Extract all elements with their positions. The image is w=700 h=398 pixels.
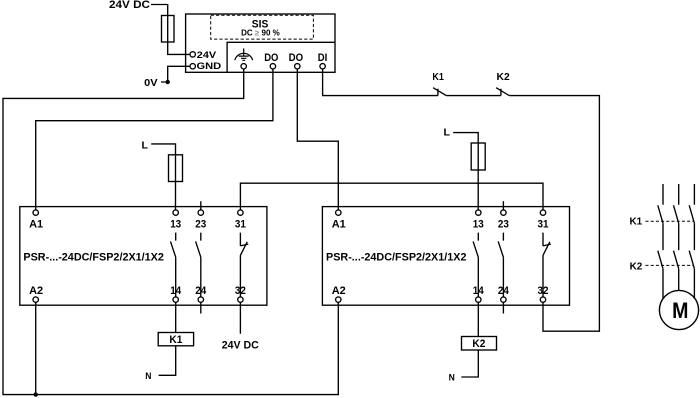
pin 14 (module 1) — [170, 285, 182, 302]
pin 31 (module 1) — [235, 210, 246, 231]
coil K2 — [462, 337, 497, 351]
wire DO (first) to module 1 A1 — [36, 69, 273, 210]
pin DO (first) — [264, 52, 279, 69]
svg-text:K2: K2 — [472, 338, 485, 350]
wire contact K2 to module 2 pin 32 — [509, 96, 599, 332]
value label PSR-...-24DC/FSP2/2X1/1X2 (module 1) — [23, 251, 164, 263]
pin 32 (module 2) — [538, 285, 549, 302]
stub above pin 23 (module 2) — [502, 201, 504, 210]
wire three-phase supply leads — [663, 184, 694, 205]
pin DI — [318, 52, 328, 69]
wire coil K1 to N — [159, 346, 176, 376]
svg-text:PSR-...-24DC/FSP2/2X1/1X2: PSR-...-24DC/FSP2/2X1/1X2 — [326, 251, 467, 263]
NC contact 31-32 (module 2) — [543, 233, 551, 297]
svg-text:L: L — [142, 139, 149, 151]
pin DO (second) — [289, 52, 304, 69]
svg-text:A2: A2 — [332, 285, 346, 297]
svg-text:GND: GND — [197, 61, 222, 72]
svg-text:23: 23 — [195, 219, 206, 231]
safety controller U1 SIS — [186, 14, 335, 72]
svg-text:31: 31 — [538, 219, 549, 231]
contactor contacts K1 (3-pole) — [658, 205, 695, 223]
NO contact 23-24 (module 1) — [196, 233, 201, 297]
stub above pin 23 (module 1) — [200, 201, 202, 210]
SIS label box — [211, 15, 314, 39]
svg-text:DI: DI — [318, 52, 328, 64]
NO contact 23-24 (module 2) — [498, 233, 503, 297]
svg-text:K1: K1 — [432, 71, 444, 83]
mechanical link K2 (dashed) — [630, 260, 693, 272]
svg-text:N: N — [449, 373, 455, 384]
pin A2 (module 1) — [29, 285, 43, 302]
svg-text:DC ≥ 90 %: DC ≥ 90 % — [241, 29, 280, 38]
NC contact K1 (feedback) — [432, 71, 446, 96]
junction ground rail / module 1 A2 — [34, 392, 38, 396]
pin 31 (module 2) — [538, 210, 549, 231]
wire contact K1 to contact K2 — [446, 95, 501, 97]
pin 23 (module 1) — [195, 210, 206, 231]
svg-text:L: L — [444, 127, 451, 139]
mechanical link K1 (dashed) — [630, 215, 694, 227]
svg-text:13: 13 — [170, 219, 181, 231]
svg-text:24V DC: 24V DC — [109, 0, 150, 11]
NO contact 13-14 (module 2) — [473, 233, 478, 297]
fuse F3 — [471, 143, 485, 170]
net label L (module 2 branch) — [444, 127, 451, 139]
pin 24 (module 2) — [498, 285, 510, 302]
wire module 1 pin 31 to module 2 pin 31 — [240, 183, 543, 210]
svg-text:K2: K2 — [497, 71, 510, 83]
wire contactors to motor — [663, 269, 694, 299]
wire coil K2 to N — [461, 350, 478, 377]
svg-text:A1: A1 — [29, 219, 43, 231]
pin 24 (module 1) — [195, 285, 207, 302]
contactor contacts K2 (3-pole) — [658, 251, 695, 269]
motor M1 — [659, 290, 698, 329]
net label 0V — [144, 77, 157, 89]
net label N (module 2 branch) — [449, 373, 455, 384]
net label 24V DC (top supply) — [109, 0, 150, 11]
pin GND — [190, 61, 221, 72]
svg-text:DO: DO — [289, 52, 304, 64]
svg-text:M: M — [672, 298, 688, 323]
wire L through fuse F3 to module 2 pin 13 — [453, 133, 478, 210]
value label PSR-...-24DC/FSP2/2X1/1X2 (module 2) — [326, 251, 467, 263]
value label DC >= 90 % — [241, 29, 280, 38]
wire 24V DC supply to fuse F1 to pin 24V — [151, 5, 190, 55]
pin 32 (module 1) — [235, 285, 246, 302]
svg-text:K1: K1 — [169, 334, 182, 346]
svg-text:23: 23 — [498, 219, 509, 231]
pin 23 (module 2) — [498, 210, 509, 231]
wire DO (second) to module 2 A1 — [297, 69, 338, 210]
pin A2 (module 2) — [332, 285, 346, 302]
svg-text:K1: K1 — [630, 215, 643, 227]
svg-text:A1: A1 — [332, 219, 346, 231]
relay module U2 PSR-...-24DC/FSP2/2X1/1X2 — [20, 207, 267, 306]
stub below pin 24 (module 2) — [502, 302, 504, 313]
svg-text:13: 13 — [473, 219, 484, 231]
pin 24V — [190, 50, 217, 61]
svg-text:PSR-...-24DC/FSP2/2X1/1X2: PSR-...-24DC/FSP2/2X1/1X2 — [23, 251, 164, 263]
wire between contactor rows — [663, 223, 694, 250]
wire module 1 pin 32 to 24V DC — [239, 302, 241, 333]
wire module 1 pin 14 to coil K1 — [175, 302, 177, 332]
svg-text:DO: DO — [264, 52, 279, 64]
coil K1 — [158, 333, 193, 347]
svg-text:24V: 24V — [197, 50, 217, 61]
wire DI to contact K1 — [323, 69, 438, 96]
earth terminal symbol — [235, 48, 253, 69]
wire L through fuse F2 to module 1 pin 13 — [151, 144, 175, 210]
net label L (module 1 branch) — [142, 139, 149, 151]
svg-text:A2: A2 — [29, 285, 43, 297]
net label 24V DC (bottom) — [222, 339, 259, 351]
NO contact 13-14 (module 1) — [171, 233, 176, 297]
relay module U3 PSR-...-24DC/FSP2/2X1/1X2 — [322, 207, 569, 306]
svg-text:K2: K2 — [630, 260, 643, 272]
pin A1 (module 2) — [332, 210, 346, 231]
NC contact K2 (feedback) — [496, 71, 510, 96]
wire earth terminal to bottom ground rail to A2 pins — [3, 69, 338, 395]
pin A1 (module 1) — [29, 210, 43, 231]
pin 14 (module 2) — [473, 285, 485, 302]
fuse F1 — [162, 16, 175, 43]
svg-text:0V: 0V — [144, 77, 157, 89]
svg-text:24V DC: 24V DC — [222, 339, 259, 351]
stub below pin 24 (module 1) — [200, 302, 202, 313]
pin 13 (module 1) — [170, 210, 181, 231]
fuse F2 — [169, 155, 183, 182]
NC contact 31-32 (module 1) — [240, 233, 248, 297]
svg-text:N: N — [145, 371, 151, 382]
wire module 1 A2 to ground rail — [35, 302, 37, 394]
pin 13 (module 2) — [473, 210, 484, 231]
wire 0V to pin GND — [161, 66, 190, 82]
svg-text:31: 31 — [235, 219, 246, 231]
junction 0V — [166, 80, 170, 84]
wire module 2 pin 14 to coil K2 — [477, 302, 479, 336]
net label N (module 1 branch) — [145, 371, 151, 382]
